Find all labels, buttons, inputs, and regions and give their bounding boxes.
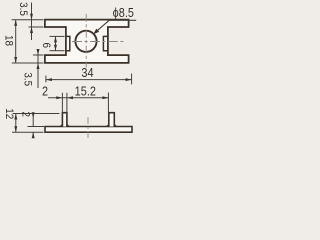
left post (plan) xyxy=(66,36,70,50)
svg-text:15.2: 15.2 xyxy=(75,83,97,98)
dim 12 line xyxy=(15,114,17,133)
front centerline xyxy=(87,117,89,138)
gusset right post right xyxy=(114,124,116,126)
dim 18 line xyxy=(15,20,17,63)
dim 3.5 top line xyxy=(31,3,33,41)
front dims: ext line y113.5 xyxy=(13,113,60,115)
front right post xyxy=(109,113,115,127)
front left post xyxy=(62,113,67,127)
svg-text:2: 2 xyxy=(42,84,48,99)
ext line y27 xyxy=(29,26,44,28)
dim 34 ext lines xyxy=(45,76,47,83)
ext line y55 xyxy=(33,54,44,56)
gusset right post left xyxy=(107,124,109,126)
svg-text:3.5: 3.5 xyxy=(17,2,29,16)
svg-text:6: 6 xyxy=(40,42,52,48)
dim 34 line xyxy=(46,79,132,81)
horizontal centerline xyxy=(72,41,123,43)
leader line phi8.5 xyxy=(93,20,136,34)
svg-text:12: 12 xyxy=(3,108,15,119)
svg-text:2: 2 xyxy=(20,112,32,118)
ext line y126.5 xyxy=(28,126,45,128)
top dim row line y97.3 xyxy=(48,97,109,99)
gusset left post right xyxy=(67,124,69,126)
front view plate xyxy=(45,127,132,133)
ext line top-left y20 xyxy=(12,19,44,21)
ext verticals for 2 and 15.2 xyxy=(61,93,63,113)
plan view body outline xyxy=(45,20,129,63)
gusset left post left xyxy=(60,124,62,126)
dim 6 line xyxy=(55,36,57,50)
svg-text:34: 34 xyxy=(81,65,93,80)
right post (plan) xyxy=(103,36,108,50)
vertical centerline xyxy=(85,14,87,68)
ext line y63 xyxy=(12,62,44,64)
leader arrowhead xyxy=(93,29,99,35)
svg-text:ϕ8.5: ϕ8.5 xyxy=(113,5,135,20)
svg-text:18: 18 xyxy=(2,35,14,46)
dim 3.5 bottom line xyxy=(37,50,39,89)
dim 2 left line upper xyxy=(32,114,34,127)
ext lines for 6 xyxy=(50,35,65,37)
hole circle xyxy=(75,31,96,52)
ext line y132 xyxy=(12,131,44,133)
svg-text:3.5: 3.5 xyxy=(21,72,33,86)
dim 2 left line lower xyxy=(32,132,34,138)
